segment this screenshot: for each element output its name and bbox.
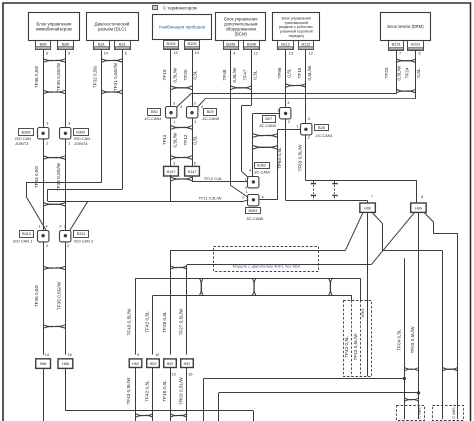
H90R long diagonal to TF27 line	[371, 212, 414, 264]
wire TF33	[65, 139, 67, 230]
svg-text:TF19: TF19	[162, 69, 167, 80]
svg-text:TF12: TF12	[183, 134, 188, 145]
svg-text:TF20: TF20	[183, 69, 188, 80]
wire TF23	[396, 50, 398, 93]
wire TF32 horizontal to left	[26, 182, 101, 184]
H88 right horizontal	[65, 410, 253, 412]
connector H52 no2	[147, 359, 160, 368]
svg-text:1: 1	[38, 224, 40, 228]
twisted pair mark	[171, 126, 192, 130]
connector tab B31 pin14	[94, 41, 110, 50]
connector H88 left	[36, 359, 51, 369]
svg-text:TF24: TF24	[404, 67, 409, 78]
svg-text:Блок печати (DRM): Блок печати (DRM)	[387, 24, 424, 29]
pair twist on horizontals	[329, 278, 333, 295]
wire TF63 horizontal	[306, 180, 417, 182]
connector tab B112 pin13	[278, 41, 294, 50]
connector tab B348 pin12	[244, 41, 260, 50]
H90L right branch vertical	[382, 223, 384, 251]
wire TF42 into dashed box	[351, 295, 353, 300]
svg-text:B105: B105	[166, 41, 175, 46]
wire TF19	[170, 50, 172, 107]
svg-text:2: 2	[46, 244, 48, 248]
label box B308	[19, 129, 34, 136]
junction connector B308 ISO CAN JOINT3	[38, 128, 49, 139]
svg-text:TF43 0,5L/W: TF43 0,5L/W	[126, 308, 131, 336]
staircase wire lower	[218, 393, 220, 421]
svg-text:7: 7	[371, 195, 373, 199]
connector tab B88 pin5	[58, 41, 74, 50]
svg-text:TF33 0,5G/W: TF33 0,5G/W	[56, 162, 61, 191]
small twist mark	[311, 183, 316, 184]
svg-text:С ABS: С ABS	[418, 407, 422, 419]
twisted pair mark	[231, 86, 252, 90]
small twist mark	[333, 183, 338, 184]
diagonal from B30 pin4 to bus1	[177, 94, 191, 107]
H90R right branch drop	[457, 234, 459, 419]
twisted pair mark	[101, 90, 122, 94]
wire below H52 no3	[170, 368, 172, 421]
svg-text:трансмиссией: трансмиссией	[284, 21, 308, 25]
svg-text:TF15: TF15	[297, 67, 302, 78]
wire below H52 no1	[135, 368, 137, 421]
H90R right branch horizontal	[434, 233, 458, 235]
connector H147 left	[164, 166, 179, 176]
svg-text:TF23: TF23	[384, 67, 389, 78]
label box B27	[263, 116, 276, 123]
svg-text:4: 4	[201, 105, 203, 109]
connector H147 right	[185, 166, 200, 176]
svg-text:H88: H88	[62, 362, 69, 366]
svg-text:TF04 0,5L: TF04 0,5L	[397, 329, 402, 351]
svg-text:13: 13	[289, 51, 293, 55]
svg-text:H52: H52	[132, 362, 139, 366]
svg-text:2: 2	[46, 142, 48, 146]
junction dot on TF03	[417, 391, 420, 394]
wire TF31 vertical	[122, 50, 124, 189]
svg-text:2: 2	[288, 120, 290, 124]
svg-text:0,5L: 0,5L	[287, 68, 292, 78]
wire TF24	[415, 50, 417, 99]
svg-text:1: 1	[296, 125, 298, 129]
svg-text:1: 1	[64, 224, 66, 228]
wire TF48 diagonal into B353 pin1	[231, 186, 248, 198]
wire TF12 vertical	[192, 118, 194, 166]
svg-text:0,5L: 0,5L	[416, 68, 421, 78]
connector tab B105 pin14	[185, 41, 200, 50]
dashed link wire	[334, 181, 336, 201]
wire TF47 jog	[242, 105, 252, 107]
svg-text:TF43 0,5L/W: TF43 0,5L/W	[126, 377, 131, 405]
svg-text:2: 2	[67, 244, 69, 248]
H90L vertical drop 4HK1	[367, 212, 369, 376]
wire TF96	[285, 50, 287, 108]
svg-text:H52: H52	[150, 362, 157, 366]
wire TF35 upper segment	[65, 50, 67, 128]
svg-text:JOINT3: JOINT3	[15, 141, 28, 146]
dashed 4HK1 box	[344, 301, 372, 377]
block: diagnostic connector DLC	[87, 13, 139, 41]
svg-text:4: 4	[249, 168, 251, 172]
twisted pair mark	[43, 90, 65, 94]
svg-text:Диагностический: Диагностический	[95, 21, 130, 26]
svg-text:J/C-CAN5: J/C-CAN5	[202, 117, 219, 121]
wire TF43 vertical	[135, 278, 137, 354]
svg-text:12: 12	[253, 51, 257, 55]
svg-text:10: 10	[155, 353, 159, 357]
svg-text:TF35 0,5G/W: TF35 0,5G/W	[56, 62, 61, 91]
svg-text:J/C-CAN1: J/C-CAN1	[316, 134, 333, 138]
wire TF28 vertical	[170, 250, 172, 354]
svg-text:ISO CAN 1: ISO CAN 1	[13, 239, 32, 244]
svg-text:B28: B28	[318, 126, 325, 130]
block: instrument cluster	[153, 15, 212, 40]
connector H52 no4	[181, 359, 194, 368]
svg-text:B231: B231	[411, 42, 420, 47]
connector tab B31 pin6	[115, 41, 131, 50]
twisted pair mark	[43, 325, 65, 329]
wire TF32 vertical	[101, 50, 103, 183]
svg-text:Модели с двигателем 4HK1 без A: Модели с двигателем 4HK1 без ABS	[233, 264, 301, 269]
wire TF35 lower	[65, 241, 67, 354]
svg-text:1: 1	[173, 120, 175, 124]
svg-text:B310: B310	[22, 232, 31, 236]
svg-text:TF43 0,5L/W: TF43 0,5L/W	[353, 333, 358, 361]
svg-text:TF18 0,5L: TF18 0,5L	[162, 380, 167, 402]
svg-text:B29: B29	[207, 110, 214, 114]
svg-text:TF36 0,5G: TF36 0,5G	[34, 65, 39, 88]
svg-text:B348: B348	[226, 41, 235, 46]
svg-text:H147: H147	[167, 170, 176, 174]
junction connector B29 J/C-CAN5	[187, 107, 198, 118]
junction connector B309 ISO CAN JOINT4	[60, 128, 71, 139]
twisted pair mark	[43, 266, 65, 270]
svg-text:TF48: TF48	[222, 69, 227, 80]
svg-text:B30: B30	[151, 110, 158, 114]
wire TF42 vertical	[152, 295, 154, 354]
svg-text:B31: B31	[98, 41, 105, 46]
twisted pair mark	[171, 86, 192, 90]
label box B29	[204, 109, 217, 116]
label box B352	[255, 163, 270, 169]
wire from H147 right to TF12 line	[192, 176, 194, 182]
svg-text:(модели с роботизи-: (модели с роботизи-	[279, 25, 315, 29]
H90L right branch diagonal	[372, 212, 382, 223]
svg-text:9: 9	[137, 353, 139, 357]
svg-text:2: 2	[242, 196, 244, 200]
svg-text:1: 1	[246, 190, 248, 194]
wire TF34	[43, 139, 45, 230]
label box B353	[246, 208, 261, 214]
wire TF32 diagonal into B310 pin4	[26, 196, 46, 230]
svg-text:TF12 0,5L: TF12 0,5L	[204, 176, 223, 181]
svg-text:B348: B348	[247, 41, 256, 46]
connector H90 left	[360, 203, 376, 212]
wire TF12 horizontal	[192, 181, 248, 183]
pair twist on horizontals	[252, 278, 256, 295]
svg-text:рованной коробкой: рованной коробкой	[280, 30, 313, 34]
svg-text:3: 3	[46, 122, 48, 126]
svg-text:3: 3	[308, 117, 310, 121]
svg-text:B88: B88	[62, 41, 69, 46]
svg-text:14: 14	[195, 51, 199, 55]
svg-text:H90: H90	[415, 206, 422, 210]
svg-text:15: 15	[67, 353, 71, 357]
wire TF64 bus horizontal	[286, 200, 368, 202]
svg-text:13: 13	[173, 51, 177, 55]
svg-text:B308: B308	[22, 130, 31, 134]
block: DRM unit	[381, 13, 431, 41]
svg-text:6: 6	[194, 161, 196, 165]
svg-text:3: 3	[287, 101, 289, 105]
svg-text:3: 3	[173, 161, 175, 165]
H90R vertical drop TF03	[418, 212, 420, 419]
svg-text:6: 6	[125, 51, 127, 55]
twisted pair mark	[404, 398, 418, 401]
junction connector B310 ISO CAN 1	[38, 231, 49, 242]
connector H90 right	[411, 203, 427, 212]
twisted pair mark	[404, 367, 418, 370]
wire TF43 horizontal	[136, 278, 361, 280]
svg-text:12: 12	[309, 51, 313, 55]
svg-text:B309: B309	[76, 130, 85, 134]
wire B27 pin1 horizontal	[253, 113, 280, 115]
svg-text:H90: H90	[364, 206, 371, 210]
svg-text:0,5L/W: 0,5L/W	[397, 65, 402, 80]
svg-text:Комбинация приборов: Комбинация приборов	[159, 24, 205, 29]
svg-text:14: 14	[45, 353, 49, 357]
svg-text:1: 1	[68, 142, 70, 146]
wire TF11 horizontal	[48, 201, 244, 203]
twisted pair mark	[396, 89, 416, 93]
svg-text:B112: B112	[301, 41, 310, 46]
svg-text:С терминатором: С терминатором	[163, 6, 197, 11]
svg-text:5: 5	[68, 51, 70, 55]
twisted pair mark	[286, 84, 306, 88]
svg-text:иммобилайзером: иммобилайзером	[36, 27, 72, 32]
svg-text:Блок управления: Блок управления	[36, 21, 72, 26]
svg-text:7: 7	[399, 52, 401, 56]
twisted pair mark	[43, 156, 65, 160]
dashed option frame	[214, 247, 319, 272]
wire TF48 vertical	[230, 50, 232, 186]
pair twist on horizontals	[200, 278, 204, 295]
wire into H90 right top	[416, 181, 418, 203]
twisted pair mark	[136, 414, 154, 418]
wire TF04	[404, 258, 406, 419]
dashed box with ABS right	[433, 406, 464, 421]
wire TF27 vertical	[186, 265, 188, 355]
svg-text:TF27 0,5L/W: TF27 0,5L/W	[179, 308, 184, 336]
svg-text:B31: B31	[119, 41, 126, 46]
svg-text:H52: H52	[184, 362, 191, 366]
twisted pair mark	[171, 156, 192, 160]
svg-text:8: 8	[421, 195, 423, 199]
svg-text:3: 3	[59, 224, 61, 228]
svg-text:1: 1	[277, 109, 279, 113]
junction connector B311 ISO CAN 2	[60, 231, 71, 242]
wire TF20	[192, 50, 194, 107]
svg-text:B88: B88	[40, 41, 47, 46]
twisted pair mark	[43, 203, 65, 207]
svg-text:4: 4	[262, 195, 264, 199]
wire TF43 into dashed box	[360, 278, 362, 300]
staircase wire upper	[203, 379, 205, 421]
dashed box with ABS left	[397, 406, 425, 421]
svg-text:TF42 0,5L: TF42 0,5L	[145, 311, 150, 333]
twisted pair mark	[170, 414, 187, 418]
svg-text:TF03 0,5L/W: TF03 0,5L/W	[410, 326, 415, 354]
svg-text:10: 10	[172, 372, 176, 376]
terminator note marker	[153, 6, 158, 10]
wire TF42 horizontal	[153, 295, 352, 297]
svg-text:B112: B112	[281, 41, 290, 46]
wire below H88 left	[43, 368, 45, 421]
junction connector B353 J/C-CAN6	[248, 195, 259, 206]
twisted pair mark	[396, 59, 416, 63]
svg-text:TF35 0,5G/W: TF35 0,5G/W	[56, 281, 61, 310]
block: transmission control unit	[273, 13, 320, 41]
svg-text:TF11 0,5L/W: TF11 0,5L/W	[199, 196, 222, 201]
wire TF31 drop	[47, 189, 49, 201]
connector tab B231 pin6	[408, 41, 424, 51]
svg-text:B352: B352	[257, 164, 266, 168]
svg-text:0,5L/W: 0,5L/W	[307, 65, 312, 80]
svg-text:TF47: TF47	[242, 69, 247, 80]
svg-text:1: 1	[194, 120, 196, 124]
svg-text:3: 3	[68, 122, 70, 126]
twisted pair mark below H147	[171, 177, 192, 181]
junction connector B352 J/C-CAN7	[248, 177, 259, 188]
wire TF11 vertical	[170, 118, 172, 166]
wire TF47 diagonal into B352 pin4	[242, 172, 249, 178]
connector tab B105 pin13	[164, 41, 179, 50]
connector tab B348 pin4	[224, 41, 239, 50]
svg-text:J/C-CAN7: J/C-CAN7	[254, 171, 271, 175]
small twist mark	[311, 195, 316, 196]
wire into H90 left top	[367, 200, 369, 203]
svg-text:С ABS: С ABS	[452, 407, 456, 419]
wire TF47 vertical	[251, 50, 253, 105]
label box B28	[315, 125, 329, 131]
wire TF11 diagonal into B353	[244, 200, 249, 202]
H90L right branch horizontal	[382, 250, 442, 252]
svg-text:1: 1	[245, 178, 247, 182]
wire below H52 no4	[186, 368, 188, 421]
svg-text:TF11: TF11	[162, 134, 167, 145]
connector H52 no3	[164, 359, 177, 368]
small twist mark	[333, 195, 338, 196]
svg-text:16: 16	[188, 372, 192, 376]
connector tab B88 pin6	[36, 41, 51, 50]
twisted pair mark	[253, 134, 278, 138]
diagonal from B29 pin4 to bus2	[198, 99, 205, 107]
label box B310	[20, 231, 34, 238]
svg-text:4HK1: 4HK1	[361, 309, 365, 318]
svg-text:H147: H147	[188, 170, 197, 174]
wire pair right to B353 pin4	[259, 199, 278, 201]
svg-text:разъём (DLC): разъём (DLC)	[98, 27, 126, 32]
svg-text:2: 2	[308, 136, 310, 140]
CAN bus line 2	[205, 98, 416, 100]
CAN bus line 1	[191, 93, 396, 95]
svg-text:TF36 0,5G: TF36 0,5G	[34, 284, 39, 307]
svg-text:TF28 0,5L: TF28 0,5L	[162, 311, 167, 333]
wire below H52 no2	[152, 368, 154, 421]
wire TF36 upper segment	[43, 50, 45, 128]
svg-text:4: 4	[233, 51, 235, 55]
junction connector B30 J/C-CAN4	[166, 107, 177, 118]
connector H88 right	[58, 359, 73, 369]
svg-text:TF63 0,5L/W: TF63 0,5L/W	[297, 144, 302, 172]
dashed wire TF42	[351, 300, 353, 376]
twisted pair mark	[170, 266, 187, 270]
svg-text:J/C-CAN4: J/C-CAN4	[144, 117, 161, 121]
wire TF27 horizontal	[187, 264, 371, 266]
svg-text:(BCM): (BCM)	[235, 31, 248, 36]
svg-text:H52: H52	[167, 362, 174, 366]
H90R right branch vertical	[433, 222, 435, 234]
junction connector B27 J/C-CAN3	[280, 108, 291, 119]
connector H52 no1	[129, 359, 142, 368]
connector tab B231 pin7	[389, 41, 404, 51]
svg-text:B311: B311	[77, 232, 86, 236]
svg-text:J/C-CAN3: J/C-CAN3	[259, 124, 276, 128]
diagonal from TF11 line to B311 pin1	[70, 201, 88, 230]
wire TF63 vertical	[305, 135, 307, 181]
svg-text:6: 6	[419, 52, 421, 56]
svg-text:TF31 0,5G/W: TF31 0,5G/W	[113, 62, 118, 91]
label box B30	[148, 109, 161, 116]
svg-text:JOINT4: JOINT4	[74, 141, 88, 146]
svg-text:0,5L/W: 0,5L/W	[172, 132, 177, 147]
svg-text:TR03 0,5L/W: TR03 0,5L/W	[179, 377, 184, 405]
dashed wire TF43	[360, 300, 362, 376]
svg-text:TF42 0,5L: TF42 0,5L	[144, 380, 149, 402]
wire TF36 lower	[43, 241, 45, 354]
block: immobilizer control unit	[29, 13, 80, 41]
svg-text:0,5L/W: 0,5L/W	[172, 67, 177, 82]
twisted pair mark	[43, 59, 65, 63]
H90L diagonal to TF28 line	[345, 212, 363, 250]
H88 right drop	[253, 411, 255, 421]
wire pair right vertical	[277, 129, 279, 199]
svg-text:6: 6	[46, 51, 48, 55]
wire TF31 horizontal to left	[48, 189, 123, 191]
svg-text:0,5L: 0,5L	[193, 70, 198, 80]
wire below H88 right	[65, 368, 67, 411]
twisted pair mark	[253, 146, 278, 150]
junction connector B28 J/C-CAN1	[301, 124, 312, 135]
svg-text:Блок управления: Блок управления	[282, 16, 311, 20]
svg-text:4: 4	[45, 224, 47, 228]
svg-text:0,5L: 0,5L	[252, 70, 257, 80]
svg-text:TF96: TF96	[277, 67, 282, 78]
svg-text:3: 3	[173, 101, 175, 105]
svg-text:передач): передач)	[289, 34, 304, 38]
H90L right branch drop	[442, 251, 444, 419]
svg-text:0,5L: 0,5L	[193, 135, 198, 145]
wire TF64 vertical	[285, 119, 287, 200]
junction dot on TF04	[403, 377, 406, 380]
svg-text:TF42 0,5L: TF42 0,5L	[344, 336, 349, 358]
svg-text:TF64 0,5L: TF64 0,5L	[277, 147, 282, 169]
svg-text:4: 4	[180, 105, 182, 109]
svg-text:ISO CAN 2: ISO CAN 2	[74, 239, 93, 244]
label box B311	[74, 231, 89, 238]
svg-text:B105: B105	[187, 41, 196, 46]
svg-text:H88: H88	[40, 362, 47, 366]
